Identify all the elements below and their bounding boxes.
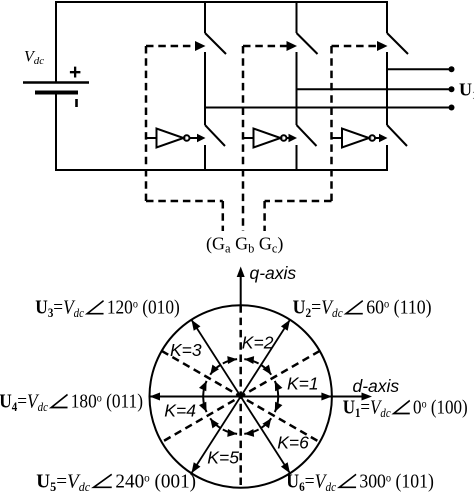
svg-text:U5=Vdc240o (001): U5=Vdc240o (001)	[36, 470, 196, 494]
svg-text:U1: U1	[459, 80, 474, 102]
svg-text:K=4: K=4	[164, 401, 196, 421]
svg-text:K=5: K=5	[207, 448, 239, 468]
svg-text:K=1: K=1	[287, 374, 319, 394]
svg-text:d-axis: d-axis	[353, 376, 400, 396]
svg-text:U3=Vdc120o (010): U3=Vdc120o (010)	[35, 296, 179, 320]
svg-text:U4=Vdc180o (011): U4=Vdc180o (011)	[0, 390, 143, 414]
svg-text:(Ga Gb Gc): (Ga Gb Gc)	[206, 234, 283, 256]
svg-text:U6=Vdc300o (101): U6=Vdc300o (101)	[286, 470, 434, 494]
svg-text:K=3: K=3	[170, 340, 202, 360]
svg-text:K=6: K=6	[277, 433, 309, 453]
svg-text:K=2: K=2	[242, 333, 274, 353]
svg-text:q-axis: q-axis	[250, 263, 297, 283]
svg-text:+: +	[69, 61, 81, 84]
